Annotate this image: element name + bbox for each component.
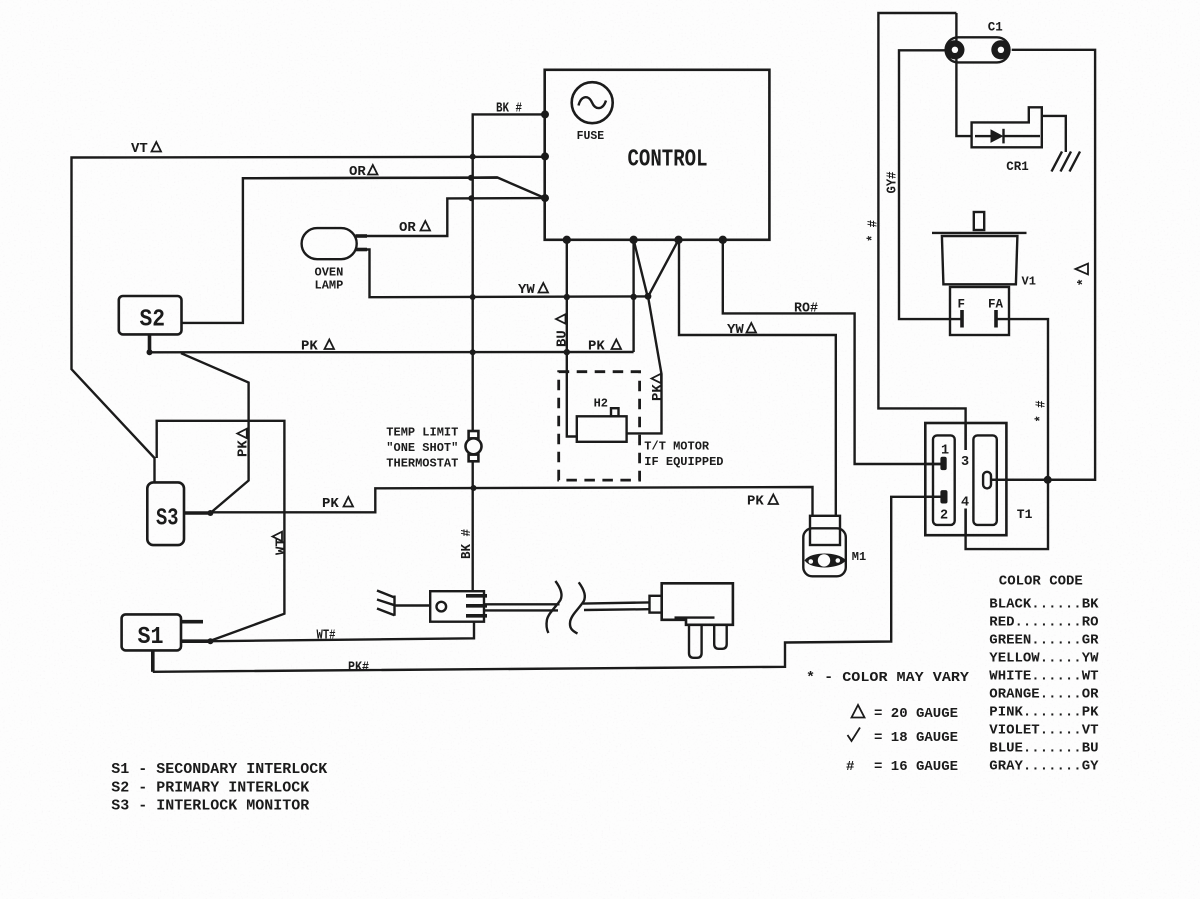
svg-text:S3 - INTERLOCK MONITOR: S3 - INTERLOCK MONITOR	[111, 798, 309, 815]
svg-text:FA: FA	[988, 298, 1004, 312]
svg-text:BK #: BK #	[496, 101, 522, 117]
svg-text:S1: S1	[138, 624, 164, 651]
svg-text:RED........RO: RED........RO	[989, 615, 1098, 631]
svg-text:BK #: BK #	[459, 529, 475, 559]
svg-text:S2: S2	[140, 307, 166, 334]
svg-text:3: 3	[961, 455, 969, 470]
svg-text:YW: YW	[518, 282, 535, 298]
svg-text:OVEN: OVEN	[315, 266, 344, 280]
svg-text:TEMP LIMIT: TEMP LIMIT	[386, 426, 458, 440]
svg-text:CONTROL: CONTROL	[628, 147, 708, 174]
svg-text:OR: OR	[349, 164, 366, 180]
svg-text:2: 2	[940, 509, 948, 524]
svg-text:RO#: RO#	[794, 301, 818, 317]
svg-text:YELLOW.....YW: YELLOW.....YW	[989, 651, 1099, 667]
svg-text:GREEN......GR: GREEN......GR	[989, 633, 1099, 649]
svg-text:GY#: GY#	[885, 172, 901, 194]
svg-text:GRAY.......GY: GRAY.......GY	[989, 759, 1099, 775]
svg-text:IF EQUIPPED: IF EQUIPPED	[644, 455, 723, 469]
svg-text:S2 - PRIMARY INTERLOCK: S2 - PRIMARY INTERLOCK	[111, 780, 309, 797]
svg-text:* - COLOR MAY VARY: * - COLOR MAY VARY	[806, 670, 970, 686]
svg-text:ORANGE.....OR: ORANGE.....OR	[989, 687, 1099, 703]
svg-text:= 20 GAUGE: = 20 GAUGE	[874, 706, 958, 722]
svg-text:#: #	[846, 759, 854, 775]
svg-text:BLUE.......BU: BLUE.......BU	[989, 741, 1098, 757]
svg-text:WHITE......WT: WHITE......WT	[989, 669, 1098, 685]
svg-text:PK: PK	[301, 339, 318, 355]
svg-text:BU: BU	[555, 330, 571, 347]
svg-text:PINK.......PK: PINK.......PK	[989, 705, 1099, 721]
svg-text:"ONE SHOT": "ONE SHOT"	[386, 441, 458, 455]
svg-text:FUSE: FUSE	[577, 130, 605, 143]
svg-text:OR: OR	[399, 220, 416, 236]
svg-text:1: 1	[941, 444, 949, 459]
svg-text:VIOLET.....VT: VIOLET.....VT	[989, 723, 1098, 739]
svg-text:V1: V1	[1022, 275, 1036, 289]
svg-text:PK: PK	[650, 384, 666, 401]
svg-text:PK: PK	[236, 440, 252, 457]
svg-text:PK#: PK#	[348, 660, 369, 676]
svg-text:M1: M1	[852, 550, 866, 564]
svg-text:VT: VT	[131, 141, 148, 157]
svg-text:4: 4	[961, 496, 969, 511]
svg-text:PK: PK	[588, 339, 605, 355]
svg-text:C1: C1	[988, 21, 1003, 35]
svg-text:PK: PK	[747, 494, 764, 510]
svg-text:* #: * #	[866, 220, 882, 242]
svg-text:F: F	[958, 298, 966, 312]
svg-text:*: *	[1076, 278, 1092, 286]
svg-text:BLACK......BK: BLACK......BK	[989, 597, 1099, 613]
svg-text:THERMOSTAT: THERMOSTAT	[386, 457, 458, 471]
svg-text:COLOR CODE: COLOR CODE	[999, 574, 1083, 590]
svg-text:S1 - SECONDARY INTERLOCK: S1 - SECONDARY INTERLOCK	[111, 761, 327, 778]
svg-text:= 18 GAUGE: = 18 GAUGE	[874, 730, 958, 746]
svg-text:PK: PK	[322, 496, 339, 512]
svg-text:CR1: CR1	[1006, 160, 1029, 174]
svg-text:* #: * #	[1034, 401, 1050, 423]
svg-text:= 16 GAUGE: = 16 GAUGE	[874, 759, 958, 775]
svg-text:YW: YW	[727, 322, 744, 338]
svg-text:T/T MOTOR: T/T MOTOR	[644, 440, 710, 454]
svg-text:S3: S3	[156, 506, 179, 533]
svg-text:T1: T1	[1017, 507, 1033, 522]
svg-text:LAMP: LAMP	[315, 279, 344, 293]
svg-text:H2: H2	[594, 397, 608, 411]
svg-text:WT#: WT#	[317, 628, 336, 644]
